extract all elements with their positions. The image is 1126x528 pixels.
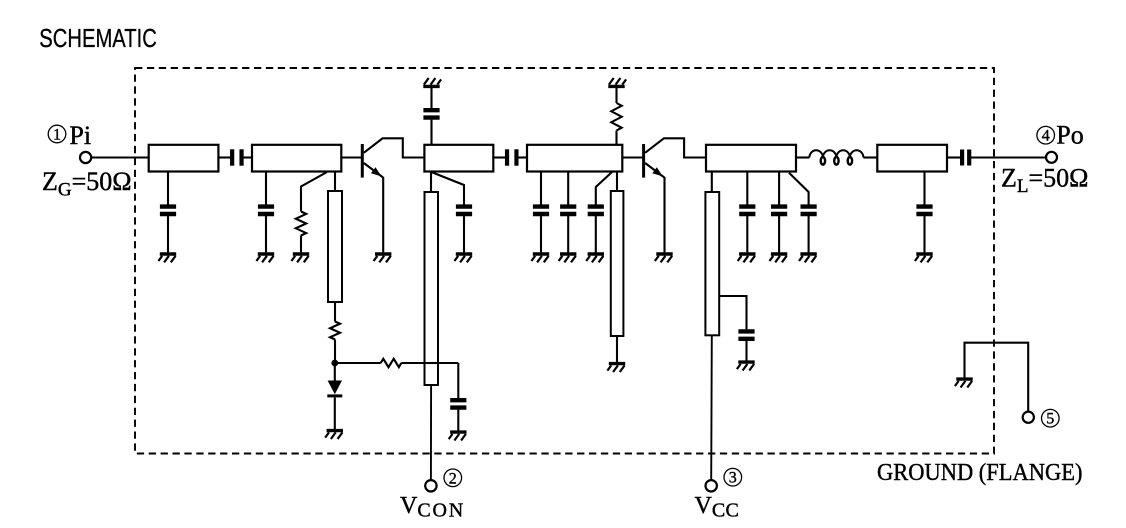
svg-text:4: 4 — [1042, 128, 1050, 145]
svg-text:Po: Po — [1056, 121, 1083, 150]
svg-text:GROUND (FLANGE): GROUND (FLANGE) — [877, 459, 1082, 486]
svg-text:ZG=50Ω: ZG=50Ω — [42, 167, 132, 201]
svg-text:Pi: Pi — [69, 121, 91, 150]
svg-text:1: 1 — [53, 127, 61, 144]
svg-text:SCHEMATIC: SCHEMATIC — [39, 23, 157, 52]
svg-text:5: 5 — [1046, 411, 1054, 428]
svg-text:3: 3 — [729, 470, 737, 487]
svg-text:ZL=50Ω: ZL=50Ω — [1001, 164, 1089, 198]
svg-text:VCON: VCON — [400, 493, 465, 522]
svg-text:2: 2 — [449, 470, 457, 487]
svg-text:VCC: VCC — [695, 493, 740, 522]
